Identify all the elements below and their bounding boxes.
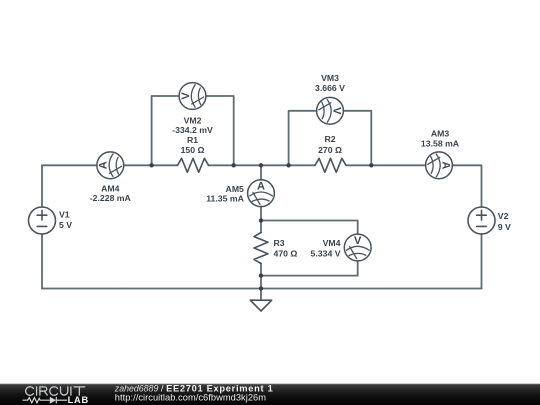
wire AM3 to right corner and V2 top [452,165,481,207]
ammeter AM5 [248,180,275,207]
wire R3 leads [260,221,262,233]
svg-text:R2: R2 [324,134,335,144]
svg-text:AM4: AM4 [101,184,120,194]
svg-text:R1: R1 [187,135,198,145]
wire V2 bottom [481,234,483,289]
node E junction dot (R2 right) [369,163,373,167]
wire R3 bottom to ground node [260,276,262,289]
wire bottom horizontal [42,288,482,290]
resistor R2 [315,158,346,172]
wire R2 right to AM3 [346,164,426,166]
CircuitLab logo resistor-diode glyph [23,397,68,404]
node H junction dot (ground) [259,286,263,290]
footer bar [0,384,540,405]
voltage source V2 [468,207,495,234]
svg-text:-2.228 mA: -2.228 mA [90,193,132,203]
wire left vertical (V1 branch) [41,165,43,207]
resistor R1 [178,158,209,172]
svg-text:V: V [331,107,343,115]
svg-text:VM2: VM2 [184,116,202,126]
CircuitLab logo wordmark CIRCUIT (drawn as paths) [26,387,85,396]
svg-text:A: A [257,181,265,193]
svg-text:V1: V1 [59,210,70,220]
svg-text:http://circuitlab.com/c6fbwmd3: http://circuitlab.com/c6fbwmd3kj26m [115,393,266,403]
voltmeter VM4 [344,234,371,261]
svg-text:A: A [98,161,110,169]
wire AM5 branch [260,165,262,180]
svg-text:13.58 mA: 13.58 mA [421,139,460,149]
node C junction dot (AM5 top) [259,163,263,167]
wire VM3 loop [289,111,317,166]
node A junction dot [149,163,153,167]
svg-text:470 Ω: 470 Ω [274,249,298,259]
wire AM4 to node A [124,164,178,166]
voltmeter VM3 [317,97,344,124]
wire main horizontal left segment [42,164,97,166]
svg-text:V: V [180,92,192,100]
svg-text:270 Ω: 270 Ω [318,145,342,155]
wire node B to node C [209,164,316,166]
svg-text:11.35 mA: 11.35 mA [206,194,244,204]
svg-text:150 Ω: 150 Ω [181,145,205,155]
svg-text:AM5: AM5 [226,184,245,194]
ammeter AM4 [97,152,124,179]
CircuitLab logo diode triangle [50,397,56,404]
svg-text:5 V: 5 V [59,220,72,230]
voltage source V1 [29,207,56,234]
ammeter AM3 [426,152,453,179]
svg-text:VM3: VM3 [321,73,339,83]
wire VM4 loop [261,221,358,234]
svg-text:9 V: 9 V [498,222,511,232]
svg-text:V2: V2 [498,211,509,221]
svg-text:VM4: VM4 [323,238,341,248]
svg-text:V: V [354,235,362,247]
node D junction dot (R2 left) [286,163,290,167]
node F junction dot (R3 top) [259,218,263,222]
svg-text:A: A [440,161,452,169]
svg-text:LAB: LAB [68,395,89,405]
svg-text:AM3: AM3 [431,129,450,139]
voltmeter VM2 [179,83,206,110]
node B junction dot [232,163,236,167]
ground [250,289,271,312]
svg-text:R3: R3 [274,238,285,248]
wire VM2 loop [152,96,179,165]
resistor R3 [254,233,268,264]
svg-text:3.666 V: 3.666 V [315,83,345,93]
svg-text:5.334 V: 5.334 V [311,249,341,259]
node G junction dot (R3 bottom) [259,273,263,277]
svg-text:-334.2 mV: -334.2 mV [172,125,213,135]
